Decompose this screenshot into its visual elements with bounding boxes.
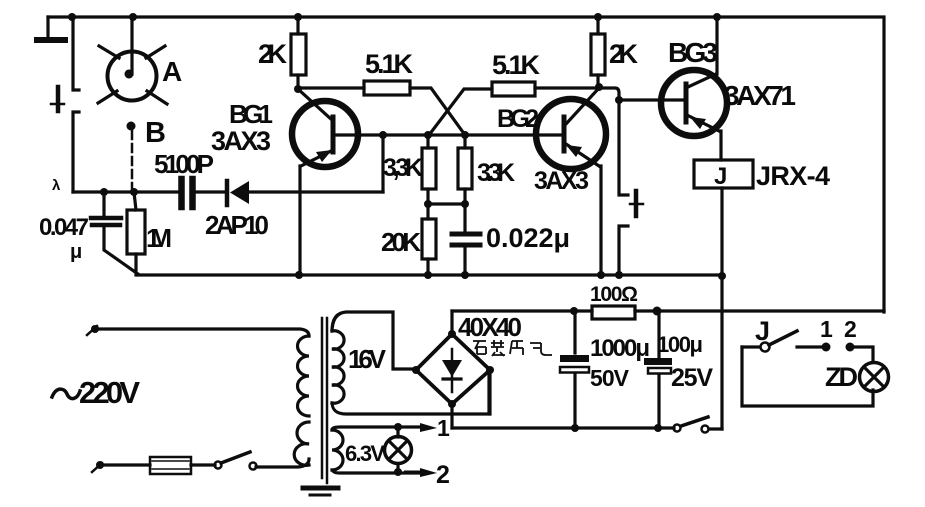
svg-text:J: J (714, 163, 727, 190)
svg-text:3AX3: 3AX3 (211, 126, 271, 156)
svg-text:100μ: 100μ (657, 332, 703, 357)
svg-text:2: 2 (436, 461, 450, 489)
svg-text:μ: μ (70, 241, 82, 263)
svg-text:1: 1 (437, 415, 450, 441)
svg-text:ZD: ZD (825, 362, 858, 392)
svg-text:1: 1 (820, 316, 833, 342)
svg-text:λ: λ (52, 177, 61, 194)
svg-text:2AP10: 2AP10 (205, 210, 269, 240)
svg-text:BG3: BG3 (668, 37, 718, 68)
svg-text:JRX-4: JRX-4 (756, 161, 830, 191)
svg-text:50V: 50V (590, 365, 630, 391)
svg-text:5100P: 5100P (154, 149, 214, 179)
svg-text:5.1K: 5.1K (492, 50, 541, 80)
svg-text:B: B (145, 117, 166, 149)
svg-text:BG1: BG1 (229, 99, 273, 129)
svg-text:A: A (162, 56, 182, 87)
svg-text:2K: 2K (609, 39, 639, 69)
svg-text:2K: 2K (258, 39, 288, 69)
svg-text:6.3V: 6.3V (345, 441, 385, 466)
svg-text:3AX3: 3AX3 (534, 167, 589, 195)
svg-text:3,3K: 3,3K (383, 154, 423, 182)
svg-text:BG2: BG2 (497, 105, 539, 133)
svg-text:2: 2 (844, 316, 857, 342)
svg-text:J: J (755, 316, 770, 346)
svg-text:25V: 25V (671, 364, 713, 392)
svg-text:3.3K: 3.3K (477, 159, 515, 187)
svg-text:5.1K: 5.1K (365, 49, 414, 79)
svg-text:100Ω: 100Ω (590, 283, 638, 306)
svg-text:220V: 220V (79, 375, 140, 410)
svg-text:16V: 16V (348, 344, 387, 374)
svg-text:40X40: 40X40 (458, 312, 522, 342)
svg-text:3AX71: 3AX71 (724, 80, 796, 111)
svg-text:20K: 20K (381, 227, 421, 257)
svg-text:1M: 1M (146, 223, 172, 253)
svg-text:0.047: 0.047 (39, 214, 89, 241)
svg-text:0.022μ: 0.022μ (486, 223, 570, 253)
svg-text:1000μ: 1000μ (590, 335, 650, 362)
